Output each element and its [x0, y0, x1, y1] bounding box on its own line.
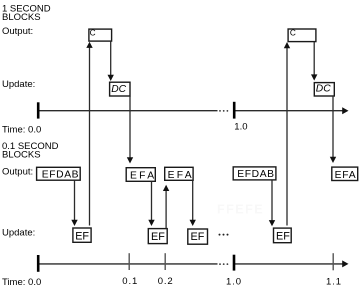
- timeline 2 thick tick 1.0: [233, 255, 236, 271]
- svg-text:Update:: Update:: [2, 228, 35, 239]
- stray dot inside EFA1: [128, 169, 130, 171]
- arrow down from C2 to DC2: [311, 42, 317, 81]
- svg-text:EFDAB: EFDAB: [42, 169, 79, 180]
- box EF3 update block: [188, 229, 208, 244]
- box EFA2 output block: [165, 167, 194, 181]
- svg-text:Time: 0.0: Time: 0.0: [2, 125, 41, 136]
- svg-text:Update:: Update:: [2, 79, 35, 90]
- arrow down from DC2 to EFA3: [330, 96, 336, 163]
- svg-text:BLOCKS: BLOCKS: [2, 149, 41, 160]
- box DC1 update block: [110, 82, 130, 96]
- svg-text:Time: 0.0: Time: 0.0: [2, 277, 41, 288]
- box EF4 update block: [274, 228, 292, 243]
- timeline 1 ellipsis dots: [219, 110, 228, 112]
- timeline 2 thin tick 0.1: [128, 253, 130, 270]
- timeline 2 ellipsis dots: [219, 263, 228, 265]
- box C1 output block: [89, 27, 112, 41]
- svg-text:C: C: [90, 27, 96, 37]
- label: 1 SECOND BLOCKS: [2, 4, 51, 24]
- box EFDAB1 output block: [37, 167, 81, 180]
- svg-text:EFA: EFA: [168, 170, 194, 181]
- arrow down from DC1 to EFA1: [127, 96, 133, 164]
- svg-text:EFDAB: EFDAB: [237, 169, 274, 180]
- timeline 2 thin tick 0.2: [164, 253, 166, 270]
- svg-text:EFA: EFA: [335, 170, 357, 181]
- box DC2 update block: [314, 83, 334, 96]
- svg-text:EF: EF: [151, 231, 165, 243]
- box EFA1 output block: [126, 168, 156, 182]
- box EFA3 output block: [332, 167, 358, 181]
- arrow up from EF4 to C2: [284, 42, 290, 226]
- svg-text:EFA: EFA: [130, 170, 156, 181]
- svg-text:Output:: Output:: [2, 26, 33, 37]
- box EF1 update block: [73, 228, 91, 242]
- svg-text:DC: DC: [111, 84, 126, 95]
- label: 0.1 SECOND BLOCKS: [2, 141, 59, 161]
- svg-text:EF: EF: [191, 231, 205, 243]
- svg-text:1.0: 1.0: [234, 122, 247, 133]
- box EFDAB2 output block: [233, 167, 276, 180]
- timeline 1 thick tick 0.0: [37, 102, 40, 118]
- timeline 2 thick tick 0.0: [37, 255, 40, 272]
- arrow down from EFDAB2 to EF4: [269, 180, 275, 226]
- svg-text:1.0: 1.0: [226, 277, 242, 288]
- timeline 2 right segment with arrowhead: [234, 260, 349, 267]
- timeline 2 left segment: [39, 263, 218, 265]
- svg-text:DC: DC: [316, 84, 331, 95]
- svg-text:BLOCKS: BLOCKS: [2, 12, 41, 23]
- arrow down from EFA2 to EF3: [190, 181, 196, 227]
- svg-text:Output:: Output:: [2, 166, 33, 177]
- svg-text:EF: EF: [276, 230, 290, 242]
- timeline 1 thick tick 1.0: [233, 102, 236, 119]
- box EF2 update block: [148, 229, 167, 244]
- timeline 1 left segment: [39, 110, 218, 112]
- svg-text:1.1: 1.1: [326, 277, 342, 288]
- timeline 2 thin tick 1.1: [332, 253, 334, 270]
- arrow up from EF2 to EFA2: [163, 185, 169, 229]
- svg-text:FFEFE: FFEFE: [217, 202, 264, 216]
- arrow down from C1 to DC1: [108, 41, 114, 81]
- ellipsis dots between EF3 and EF4: [219, 234, 229, 236]
- svg-text:EF: EF: [75, 230, 89, 242]
- svg-text:0.1: 0.1: [122, 276, 138, 287]
- box C2 output block: [288, 27, 316, 41]
- timeline 1 right segment with arrowhead: [234, 107, 349, 114]
- arrow down from EFA1 to EF2: [148, 182, 154, 226]
- arrow down from EFDAB1 to EF1: [71, 181, 77, 226]
- arrow up from EF1 to C1: [86, 42, 92, 226]
- svg-text:0.2: 0.2: [158, 276, 174, 287]
- svg-text:C: C: [290, 27, 296, 37]
